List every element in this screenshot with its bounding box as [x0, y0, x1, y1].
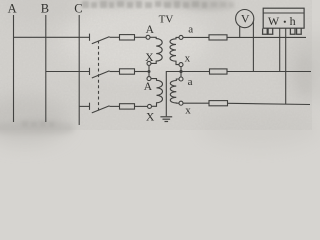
- switch QS pole 2 blade: [92, 71, 110, 78]
- svg-text:x: x: [185, 53, 191, 65]
- bus line C: [78, 15, 80, 125]
- fuse FU2: [120, 69, 135, 74]
- meter lead to wire c: [285, 29, 287, 105]
- wire c: x2 to fuse FU6: [183, 102, 209, 104]
- wire blade2 to fuse: [110, 71, 120, 73]
- bus line B: [45, 15, 47, 122]
- svg-text:V: V: [241, 12, 250, 26]
- junction dot b (x1-a2-ground-wire b): [179, 70, 182, 73]
- switch QS pole 3 blade: [92, 106, 110, 113]
- voltmeter V circle: [236, 10, 254, 28]
- fuse FU4: [209, 35, 227, 40]
- T1 secondary winding: [170, 37, 179, 64]
- ground symbol: [160, 117, 172, 122]
- svg-text:x: x: [185, 104, 191, 116]
- T2 secondary terminal x: [179, 101, 183, 105]
- svg-text:A: A: [146, 24, 155, 36]
- wire c: fuse FU6 to meter lead: [228, 103, 311, 104]
- wire branch1 from bus A: [14, 36, 90, 38]
- T1 secondary terminal a: [179, 35, 183, 39]
- T2 secondary terminal a: [179, 77, 183, 81]
- meter terminal foot 1: [262, 29, 268, 35]
- fuse FU1: [120, 35, 135, 40]
- meter terminal foot 3: [290, 29, 296, 35]
- watt-hour meter header line: [263, 12, 304, 14]
- voltmeter right lead to wire b: [252, 22, 254, 72]
- wire fuse3 to T2 primary terminal X: [135, 105, 148, 107]
- svg-text:A: A: [8, 1, 17, 15]
- wire b: junction to fuse FU5: [181, 71, 210, 73]
- T2 primary winding: [151, 79, 163, 107]
- bus line A: [13, 15, 15, 122]
- switch QS pole 2 fixed contact: [89, 68, 91, 75]
- T1 secondary terminal x: [179, 63, 183, 67]
- svg-text:TV: TV: [159, 13, 174, 25]
- ground wire from junction b: [166, 72, 181, 117]
- T1 primary winding: [150, 37, 162, 63]
- svg-text:C: C: [74, 1, 82, 15]
- wire x1 down to junction b: [180, 67, 182, 77]
- svg-text:A: A: [144, 81, 153, 93]
- switch QS pole 3 fixed contact: [89, 103, 91, 110]
- meter terminal foot 2: [267, 29, 273, 35]
- wire fuse2 to X1-A2 link: [135, 71, 150, 73]
- svg-text:X: X: [145, 52, 154, 64]
- meter lead to wire b: [279, 29, 281, 72]
- watt-hour meter W·h box: [263, 8, 304, 28]
- svg-text:a: a: [188, 76, 193, 88]
- switch QS linkage (dashed): [98, 41, 100, 111]
- watt-hour meter middle dot: [284, 21, 286, 23]
- wire branch3 from bus C: [79, 105, 89, 107]
- T1 primary terminal X: [147, 61, 151, 65]
- wire a: a1 to fuse FU4: [183, 36, 209, 38]
- junction dot X1-A2-branch2: [148, 70, 151, 73]
- fuse FU3: [120, 104, 135, 109]
- wire b: fuse FU5 to meter lead: [227, 71, 311, 73]
- fuse FU6: [209, 101, 228, 106]
- svg-text:a: a: [188, 24, 193, 36]
- switch QS pole 1 fixed contact: [89, 34, 91, 41]
- T2 primary terminal A: [147, 77, 151, 81]
- wire X1 to A2 crossing branch2: [148, 65, 150, 76]
- voltmeter left lead to wire a: [239, 26, 241, 37]
- svg-text:B: B: [41, 1, 49, 15]
- svg-text:X: X: [146, 111, 155, 123]
- wire blade3 to fuse: [110, 105, 120, 107]
- wire blade1 to fuse: [110, 36, 120, 38]
- switch QS pole 1 blade: [92, 37, 110, 44]
- wire a: fuse FU4 to end under meter: [227, 36, 306, 38]
- svg-text:W: W: [268, 14, 280, 28]
- T1 primary terminal A: [146, 35, 150, 39]
- T2 primary terminal X: [148, 104, 152, 108]
- wire branch2 from bus B: [46, 71, 90, 73]
- fuse FU5: [210, 69, 228, 74]
- T2 secondary winding: [170, 79, 179, 103]
- svg-text:h: h: [290, 14, 296, 28]
- meter terminal foot 4: [296, 29, 302, 35]
- wire fuse1 to T1 primary terminal A: [135, 36, 147, 38]
